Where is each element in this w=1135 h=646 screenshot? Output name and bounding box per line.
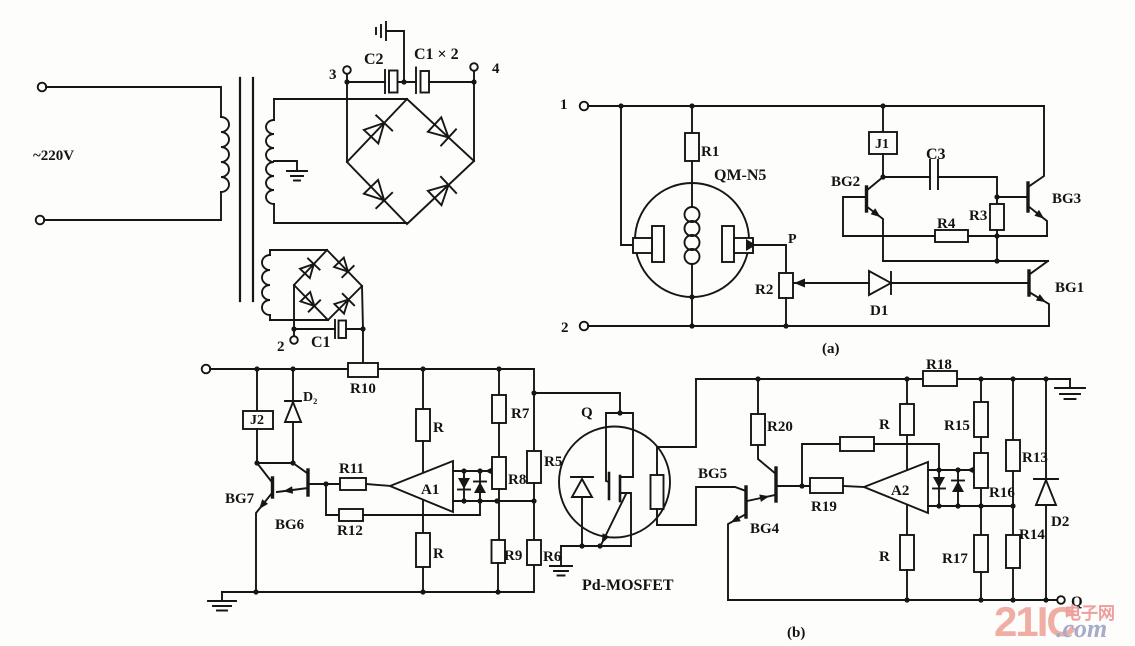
svg-text:R6: R6: [543, 549, 562, 565]
svg-text:R5: R5: [544, 454, 562, 470]
svg-text:BG5: BG5: [698, 466, 727, 482]
svg-text:R9: R9: [504, 548, 522, 564]
svg-text:R4: R4: [937, 216, 956, 232]
svg-text:BG7: BG7: [225, 491, 255, 507]
svg-text:P: P: [788, 232, 797, 247]
svg-text:~220V: ~220V: [33, 148, 74, 164]
svg-text:R14: R14: [1019, 527, 1045, 543]
svg-text:J1: J1: [875, 137, 889, 152]
svg-text:A1: A1: [421, 482, 439, 498]
svg-text:BG4: BG4: [750, 521, 780, 537]
svg-text:(a): (a): [822, 341, 840, 357]
svg-text:C2: C2: [364, 51, 384, 68]
svg-text:4: 4: [492, 61, 500, 77]
svg-text:2: 2: [277, 339, 285, 355]
svg-text:R17: R17: [942, 551, 968, 567]
svg-text:1: 1: [560, 97, 568, 113]
svg-text:R18: R18: [926, 357, 952, 373]
svg-text:BG6: BG6: [275, 517, 305, 533]
svg-text:(b): (b): [787, 625, 805, 641]
svg-text:R13: R13: [1022, 450, 1048, 466]
svg-text:R2: R2: [755, 282, 773, 298]
svg-text:R19: R19: [811, 499, 837, 515]
svg-text:R16: R16: [989, 485, 1015, 501]
svg-text:.com: .com: [1056, 614, 1107, 643]
svg-text:R1: R1: [701, 144, 719, 160]
svg-text:QM-N5: QM-N5: [714, 167, 766, 184]
svg-text:R15: R15: [944, 418, 970, 434]
svg-text:R: R: [433, 420, 444, 436]
svg-text:R20: R20: [767, 419, 793, 435]
svg-text:C1: C1: [311, 334, 331, 351]
svg-text:R: R: [433, 546, 444, 562]
svg-text:C1 × 2: C1 × 2: [414, 46, 459, 63]
svg-text:BG2: BG2: [831, 174, 860, 190]
svg-text:R7: R7: [511, 406, 530, 422]
svg-text:R: R: [879, 417, 890, 433]
svg-text:BG1: BG1: [1055, 280, 1084, 296]
svg-text:J2: J2: [250, 413, 264, 428]
svg-text:D₂: D₂: [303, 390, 317, 405]
svg-text:BG3: BG3: [1052, 191, 1081, 207]
svg-text:C3: C3: [926, 146, 946, 163]
svg-text:R11: R11: [339, 461, 364, 477]
svg-text:R8: R8: [508, 472, 526, 488]
svg-text:R3: R3: [969, 208, 987, 224]
svg-text:R: R: [879, 549, 890, 565]
svg-text:D2: D2: [1051, 514, 1069, 530]
svg-text:2: 2: [561, 320, 569, 336]
svg-text:R12: R12: [337, 523, 363, 539]
svg-text:A2: A2: [891, 483, 909, 499]
svg-text:D1: D1: [870, 303, 888, 319]
svg-text:3: 3: [329, 67, 337, 83]
svg-text:Pd-MOSFET: Pd-MOSFET: [582, 577, 674, 594]
svg-text:R10: R10: [350, 381, 376, 397]
svg-text:Q: Q: [581, 405, 593, 421]
